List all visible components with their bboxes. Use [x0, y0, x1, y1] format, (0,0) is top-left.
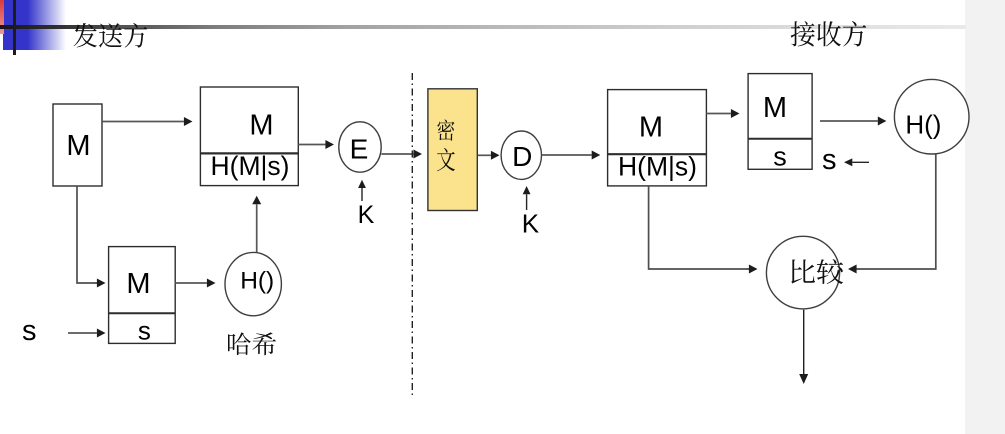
box M + s (receiver) [748, 74, 812, 170]
box M (sender message) [53, 104, 102, 186]
arrow K into D [526, 194, 528, 210]
arrow s pointing left [852, 161, 869, 163]
label 文 [437, 148, 455, 171]
svg-text:s: s [822, 144, 837, 176]
svg-text:s: s [138, 316, 151, 346]
label sender 发送方 [73, 23, 147, 48]
arrow D to receiver M|H(M|s) [542, 154, 592, 156]
label receiver 接收方 [791, 21, 867, 46]
arrow M to M|H(M|s) box [103, 121, 184, 123]
arrow ciphertext to D [478, 154, 491, 156]
box M + H(M|s) (sender concatenated) [200, 87, 298, 186]
arrowhead into compare left [746, 268, 749, 270]
right gray page margin [965, 0, 1005, 434]
arrowhead into compare right [857, 268, 860, 270]
circle compare 比较 [766, 236, 839, 309]
decoration blue gradient block [3, 0, 68, 50]
label 哈希 (hash) [228, 332, 276, 355]
label 密 [437, 120, 454, 141]
svg-text:M: M [126, 268, 150, 300]
arrow M|s to H() [820, 120, 878, 122]
svg-text:M: M [66, 130, 90, 162]
arrow E to ciphertext [381, 153, 413, 155]
wire receiver hash box down to compare [649, 186, 750, 269]
label 比较 [791, 259, 843, 284]
svg-text:H(M|s): H(M|s) [618, 152, 697, 182]
svg-text:K: K [522, 209, 540, 239]
arrow H() up into H(M|s) [256, 204, 258, 252]
svg-text:D: D [512, 141, 532, 172]
svg-text:s: s [773, 142, 787, 172]
circle H() (sender hash) [225, 252, 281, 315]
circle E (encrypt) [339, 122, 381, 172]
box M + H(M|s) (receiver) [608, 90, 707, 186]
arrow to E [298, 144, 325, 146]
decoration black vertical bar [13, 0, 17, 55]
wire M down to M|s box [77, 186, 97, 283]
arrow to M|s box [706, 113, 731, 115]
svg-text:E: E [350, 134, 369, 165]
decoration red strip [0, 0, 4, 34]
circle D (decrypt) [501, 131, 541, 179]
arrow compare result down [803, 310, 805, 374]
arrowhead into M|s [95, 282, 97, 284]
arrow M|s to H() [175, 282, 207, 284]
header gradient rule [0, 25, 966, 29]
svg-text:H(): H() [240, 268, 274, 295]
svg-text:M: M [249, 109, 273, 141]
arrow K into E [361, 188, 363, 201]
svg-text:s: s [22, 315, 37, 347]
arrow s into M|s box [68, 332, 97, 334]
circle H() (receiver hash) [894, 79, 969, 154]
svg-text:M: M [763, 92, 787, 124]
ciphertext box 密文 [428, 89, 477, 211]
svg-text:H(): H() [905, 110, 941, 140]
channel divider dash-dot line [411, 73, 413, 396]
svg-text:K: K [358, 201, 375, 229]
svg-text:M: M [639, 112, 663, 144]
wire H() down to compare [856, 155, 936, 270]
svg-text:H(M|s): H(M|s) [211, 151, 290, 181]
box M + s (sender) [109, 247, 176, 344]
